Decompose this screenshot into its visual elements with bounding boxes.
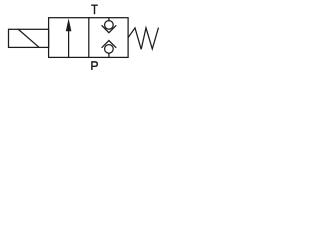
check valve CV1 seat bbox=[102, 26, 116, 33]
return spring bbox=[128, 28, 158, 49]
flow arrow head bbox=[66, 18, 72, 31]
check valve CV2 stub bbox=[108, 53, 110, 57]
check valve CV2 ball bbox=[105, 45, 114, 54]
flow arrow shaft bbox=[68, 31, 70, 58]
valve body outline bbox=[49, 18, 129, 58]
check valve CV1 stub bbox=[108, 18, 110, 21]
check valve CV2 seat bbox=[102, 41, 116, 48]
port label T bbox=[91, 5, 98, 14]
check valve CV1 ball bbox=[105, 21, 114, 30]
solenoid diagonal stroke bbox=[18, 29, 39, 47]
position divider line bbox=[88, 18, 90, 58]
port label P bbox=[92, 62, 97, 70]
solenoid coil box bbox=[9, 29, 49, 47]
